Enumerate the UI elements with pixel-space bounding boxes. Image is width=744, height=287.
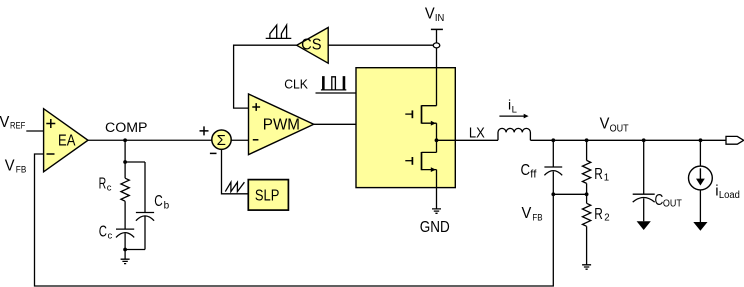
svg-text:CLK: CLK (284, 78, 308, 92)
svg-text:V: V (522, 205, 532, 222)
svg-text:FB: FB (16, 164, 26, 175)
svg-text:R: R (99, 176, 107, 193)
svg-text:1: 1 (604, 173, 609, 184)
svg-text:b: b (164, 200, 170, 211)
svg-text:GND: GND (420, 219, 450, 236)
svg-text:V: V (5, 157, 15, 174)
svg-text:2: 2 (604, 213, 609, 224)
svg-text:SLP: SLP (255, 187, 280, 204)
svg-text:c: c (108, 230, 113, 241)
svg-text:V: V (600, 115, 610, 132)
svg-text:CS: CS (301, 37, 321, 54)
svg-text:Σ: Σ (217, 132, 226, 149)
svg-text:C: C (154, 193, 163, 210)
svg-text:V: V (0, 114, 10, 131)
svg-text:C: C (99, 223, 107, 240)
svg-text:V: V (425, 5, 435, 22)
svg-text:COMP: COMP (105, 120, 148, 136)
svg-text:EA: EA (58, 132, 76, 149)
svg-text:REF: REF (10, 120, 25, 131)
svg-text:R: R (594, 166, 603, 183)
svg-text:OUT: OUT (663, 198, 682, 210)
svg-text:Load: Load (719, 190, 740, 201)
svg-text:c: c (107, 182, 112, 193)
svg-text:LX: LX (469, 126, 485, 142)
svg-text:ff: ff (530, 168, 537, 180)
svg-text:IN: IN (435, 13, 444, 24)
svg-text:FB: FB (532, 212, 542, 223)
svg-text:OUT: OUT (610, 123, 629, 134)
svg-text:PWM: PWM (263, 116, 300, 133)
svg-text:R: R (594, 206, 603, 223)
svg-text:C: C (521, 162, 531, 179)
svg-text:L: L (512, 104, 517, 115)
